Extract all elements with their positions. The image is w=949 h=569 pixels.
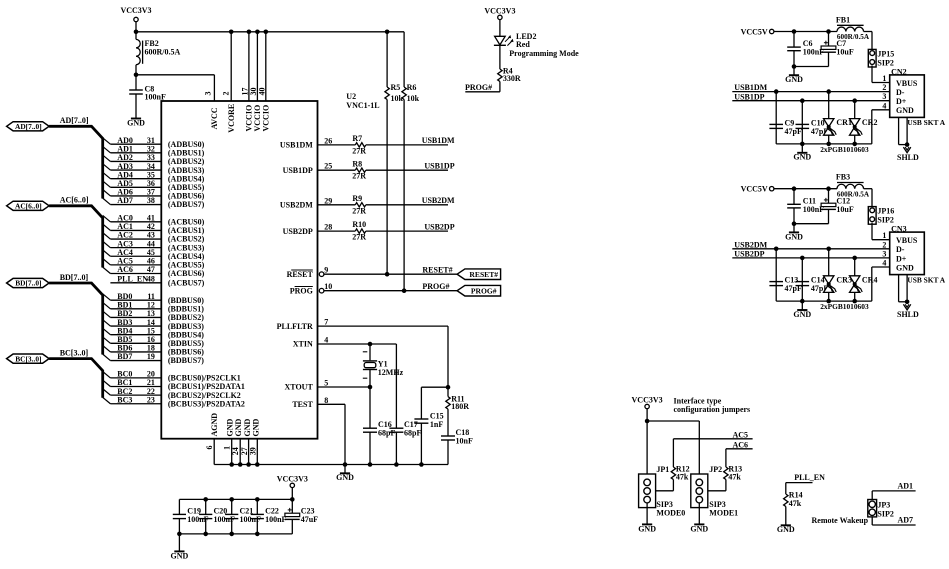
svg-text:4: 4 xyxy=(882,259,886,268)
svg-text:PLL_EN: PLL_EN xyxy=(794,473,825,482)
svg-text:AGND: AGND xyxy=(210,413,219,437)
svg-text:68pF: 68pF xyxy=(404,429,421,438)
svg-text:USB SKT A: USB SKT A xyxy=(907,118,945,127)
svg-text:10nF: 10nF xyxy=(456,437,473,446)
svg-text:8: 8 xyxy=(324,396,328,405)
svg-text:USB SKT A: USB SKT A xyxy=(907,275,945,284)
svg-text:1: 1 xyxy=(222,446,231,450)
svg-text:USB2DP: USB2DP xyxy=(283,227,313,236)
svg-text:C15: C15 xyxy=(430,411,444,420)
svg-text:5: 5 xyxy=(324,379,328,388)
svg-text:VCC3V3: VCC3V3 xyxy=(484,7,515,16)
svg-text:100nF: 100nF xyxy=(265,515,286,524)
svg-text:VNC1-1L: VNC1-1L xyxy=(346,101,379,110)
svg-text:RESET#: RESET# xyxy=(422,265,452,274)
svg-text:39: 39 xyxy=(248,447,257,455)
svg-text:CN3: CN3 xyxy=(891,225,907,234)
svg-text:1nF: 1nF xyxy=(430,420,443,429)
svg-text:27R: 27R xyxy=(352,233,366,242)
svg-text:RESET: RESET xyxy=(287,270,314,279)
svg-text:SIP2: SIP2 xyxy=(877,216,893,225)
svg-text:23: 23 xyxy=(147,395,155,404)
svg-text:GND: GND xyxy=(251,419,260,437)
svg-text:1: 1 xyxy=(882,231,886,240)
svg-text:1: 1 xyxy=(882,74,886,83)
svg-text:(BDBUS7): (BDBUS7) xyxy=(168,356,204,365)
svg-text:VBUS: VBUS xyxy=(896,236,918,245)
svg-text:28: 28 xyxy=(324,223,332,232)
svg-text:600R/0.5A: 600R/0.5A xyxy=(145,47,181,56)
svg-text:VBUS: VBUS xyxy=(896,79,918,88)
svg-text:USB2DM: USB2DM xyxy=(280,201,313,210)
svg-text:47: 47 xyxy=(147,265,155,274)
svg-text:AD[7..0]: AD[7..0] xyxy=(15,122,42,131)
svg-text:VCC3V3: VCC3V3 xyxy=(632,396,663,405)
svg-text:4: 4 xyxy=(324,336,328,345)
svg-text:25: 25 xyxy=(324,162,332,171)
svg-text:MODE1: MODE1 xyxy=(709,508,738,517)
svg-text:R10: R10 xyxy=(352,220,366,229)
svg-text:19: 19 xyxy=(147,352,155,361)
svg-text:3: 3 xyxy=(882,92,886,101)
svg-text:VCC5V: VCC5V xyxy=(741,27,768,36)
svg-text:USB1DM: USB1DM xyxy=(280,141,313,150)
svg-text:GND: GND xyxy=(793,153,811,162)
svg-text:GND: GND xyxy=(127,118,145,127)
svg-text:JP2: JP2 xyxy=(709,465,722,474)
svg-text:10: 10 xyxy=(324,282,332,291)
svg-text:BD7: BD7 xyxy=(117,352,132,361)
svg-text:2: 2 xyxy=(882,240,886,249)
svg-text:(ACBUS7): (ACBUS7) xyxy=(168,279,205,288)
svg-text:12MHz: 12MHz xyxy=(378,368,404,377)
svg-text:configuration jumpers: configuration jumpers xyxy=(674,405,751,414)
svg-text:27R: 27R xyxy=(352,172,366,181)
svg-text:USB2DP: USB2DP xyxy=(734,250,764,259)
svg-text:D+: D+ xyxy=(896,254,907,263)
svg-text:10uF: 10uF xyxy=(836,205,853,214)
svg-text:GND: GND xyxy=(777,525,795,534)
svg-text:47k: 47k xyxy=(676,473,689,482)
svg-text:2: 2 xyxy=(221,92,230,96)
svg-text:47k: 47k xyxy=(728,473,741,482)
svg-text:AD7: AD7 xyxy=(117,196,133,205)
svg-text:7: 7 xyxy=(324,318,328,327)
svg-text:R8: R8 xyxy=(352,159,362,168)
svg-text:AD1: AD1 xyxy=(897,481,913,490)
svg-text:AC5: AC5 xyxy=(732,431,748,440)
svg-text:38: 38 xyxy=(147,196,155,205)
svg-text:GND: GND xyxy=(171,551,189,560)
svg-text:Remote Wakeup: Remote Wakeup xyxy=(812,516,869,525)
svg-text:R7: R7 xyxy=(352,134,362,143)
svg-text:TEST: TEST xyxy=(292,400,313,409)
svg-text:PROG#: PROG# xyxy=(465,83,492,92)
svg-text:47uF: 47uF xyxy=(301,515,318,524)
svg-text:D+: D+ xyxy=(896,97,907,106)
svg-text:100nF: 100nF xyxy=(145,93,166,102)
svg-text:PROG#: PROG# xyxy=(471,286,497,295)
svg-text:180R: 180R xyxy=(451,402,469,411)
svg-text:VCORE: VCORE xyxy=(227,104,236,133)
svg-text:XTIN: XTIN xyxy=(293,340,313,349)
svg-text:MODE0: MODE0 xyxy=(656,508,685,517)
svg-text:47k: 47k xyxy=(789,499,802,508)
svg-text:VCC3V3: VCC3V3 xyxy=(120,6,151,15)
svg-text:GND: GND xyxy=(336,473,354,482)
svg-text:XTOUT: XTOUT xyxy=(284,383,313,392)
svg-text:SHLD: SHLD xyxy=(897,310,919,319)
svg-text:R6: R6 xyxy=(407,83,417,92)
svg-text:2xPGB1010603: 2xPGB1010603 xyxy=(820,302,869,311)
svg-text:GND: GND xyxy=(896,263,914,272)
svg-text:JP3: JP3 xyxy=(877,501,890,510)
svg-text:SIP2: SIP2 xyxy=(877,509,893,518)
svg-text:PLL_EN: PLL_EN xyxy=(117,275,148,284)
svg-text:AC[6..0]: AC[6..0] xyxy=(15,202,42,211)
svg-text:SIP2: SIP2 xyxy=(877,58,893,67)
svg-text:10k: 10k xyxy=(391,94,404,103)
svg-text:AC6: AC6 xyxy=(117,265,133,274)
svg-text:U2: U2 xyxy=(346,92,356,101)
svg-text:GND: GND xyxy=(638,524,656,533)
svg-text:AD7: AD7 xyxy=(897,516,913,525)
svg-text:AC6: AC6 xyxy=(732,441,748,450)
svg-text:330R: 330R xyxy=(503,74,521,83)
svg-text:SHLD: SHLD xyxy=(897,153,919,162)
svg-text:48: 48 xyxy=(147,275,155,284)
svg-text:USB1DM: USB1DM xyxy=(734,83,767,92)
svg-text:GND: GND xyxy=(690,524,708,533)
svg-text:9: 9 xyxy=(324,266,328,275)
svg-text:FB1: FB1 xyxy=(836,15,850,24)
svg-text:3: 3 xyxy=(882,249,886,258)
svg-text:VCC3V3: VCC3V3 xyxy=(277,475,308,484)
svg-text:USB2DM: USB2DM xyxy=(734,240,767,249)
svg-text:USB2DM: USB2DM xyxy=(422,196,455,205)
svg-text:D-: D- xyxy=(896,245,905,254)
svg-text:27R: 27R xyxy=(352,206,366,215)
svg-text:26: 26 xyxy=(324,136,332,145)
svg-text:Programming Mode: Programming Mode xyxy=(509,49,579,58)
svg-text:AVCC: AVCC xyxy=(210,107,219,129)
svg-text:4: 4 xyxy=(882,101,886,110)
svg-text:(BCBUS3)/PS2DATA2: (BCBUS3)/PS2DATA2 xyxy=(168,399,245,408)
svg-text:R9: R9 xyxy=(352,194,362,203)
svg-text:AD[7..0]: AD[7..0] xyxy=(60,116,89,125)
svg-text:3: 3 xyxy=(203,92,212,96)
svg-text:29: 29 xyxy=(324,196,332,205)
svg-text:RESET#: RESET# xyxy=(469,270,498,279)
svg-text:USB1DP: USB1DP xyxy=(734,92,764,101)
svg-text:VCC5V: VCC5V xyxy=(741,185,768,194)
svg-text:USB1DM: USB1DM xyxy=(422,136,455,145)
svg-text:JP1: JP1 xyxy=(656,465,669,474)
svg-text:GND: GND xyxy=(785,232,803,241)
svg-text:40: 40 xyxy=(257,88,266,96)
svg-text:GND: GND xyxy=(896,106,914,115)
svg-text:CR2: CR2 xyxy=(862,118,878,127)
svg-text:R5: R5 xyxy=(391,83,401,92)
svg-text:(ADBUS7): (ADBUS7) xyxy=(168,200,205,209)
svg-text:BC3: BC3 xyxy=(117,395,132,404)
svg-text:JP15: JP15 xyxy=(877,50,894,59)
svg-text:2: 2 xyxy=(882,83,886,92)
svg-text:VCCIO: VCCIO xyxy=(262,105,271,132)
svg-text:27R: 27R xyxy=(352,146,366,155)
svg-text:2xPGB1010603: 2xPGB1010603 xyxy=(820,145,869,154)
svg-text:BC[3..0]: BC[3..0] xyxy=(60,348,89,357)
svg-text:USB2DP: USB2DP xyxy=(424,222,454,231)
svg-text:6: 6 xyxy=(205,446,214,450)
svg-text:(ACBUS6): (ACBUS6) xyxy=(168,269,205,278)
svg-text:PLLFLTR: PLLFLTR xyxy=(277,322,313,331)
svg-text:10uF: 10uF xyxy=(836,48,853,57)
svg-text:GND: GND xyxy=(785,75,803,84)
svg-text:PROG: PROG xyxy=(290,286,313,295)
svg-text:USB1DP: USB1DP xyxy=(424,161,454,170)
svg-text:CN2: CN2 xyxy=(891,68,907,77)
svg-text:BD[7..0]: BD[7..0] xyxy=(60,273,89,282)
svg-text:JP16: JP16 xyxy=(877,207,894,216)
svg-text:D-: D- xyxy=(896,88,905,97)
svg-text:10k: 10k xyxy=(407,94,420,103)
svg-text:AC[6..0]: AC[6..0] xyxy=(60,196,89,205)
svg-text:USB1DP: USB1DP xyxy=(283,166,313,175)
svg-text:GND: GND xyxy=(793,310,811,319)
svg-text:BD[7..0]: BD[7..0] xyxy=(15,279,41,288)
svg-text:CR4: CR4 xyxy=(862,275,878,284)
svg-text:PROG#: PROG# xyxy=(422,282,449,291)
svg-text:FB3: FB3 xyxy=(836,173,850,182)
svg-text:BC[3..0]: BC[3..0] xyxy=(15,354,41,363)
svg-text:68pF: 68pF xyxy=(378,429,395,438)
